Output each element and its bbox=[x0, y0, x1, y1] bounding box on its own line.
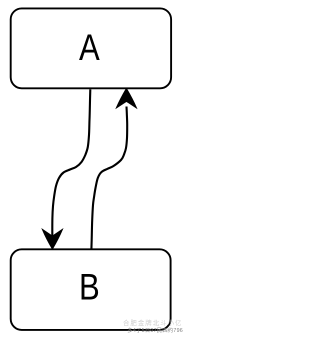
arrowhead into A (up) bbox=[117, 89, 137, 108]
svg-text:B: B bbox=[79, 267, 100, 308]
node box A bbox=[11, 8, 171, 88]
wire B to A (right S-curve) bbox=[91, 107, 127, 250]
label B bbox=[79, 267, 100, 308]
node box B bbox=[11, 249, 171, 330]
wire A to B (left S-curve) bbox=[52, 89, 90, 237]
label A bbox=[79, 28, 100, 69]
svg-text:多4了5日07民四约796: 多4了5日07民四约796 bbox=[127, 326, 183, 334]
svg-text:合肥金牌北斗小亿: 合肥金牌北斗小亿 bbox=[123, 318, 183, 327]
arrowhead into B (down) bbox=[43, 230, 63, 249]
svg-text:A: A bbox=[79, 28, 100, 69]
